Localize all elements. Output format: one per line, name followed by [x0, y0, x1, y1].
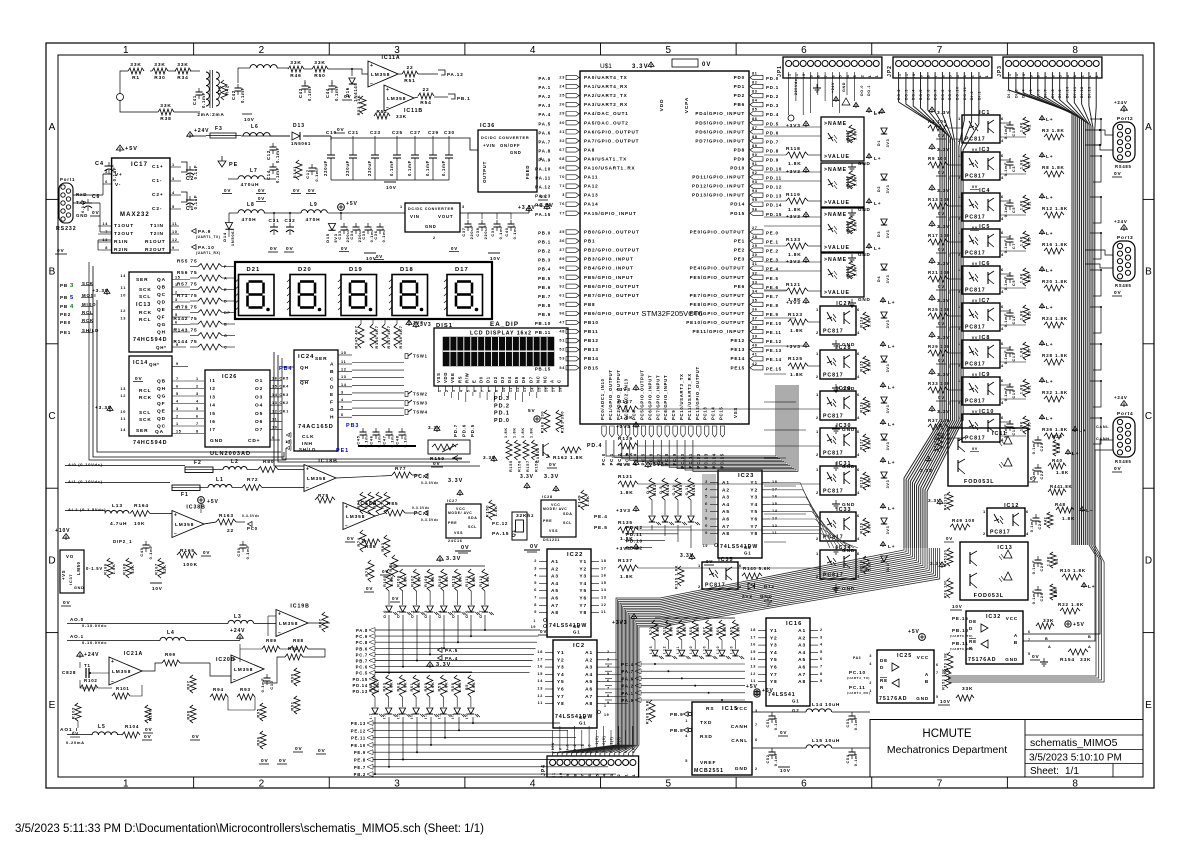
- svg-text:R149: R149: [577, 495, 582, 507]
- svg-text:10: 10: [120, 294, 126, 298]
- svg-text:1N5061: 1N5061: [291, 141, 311, 146]
- svg-text:8: 8: [927, 75, 931, 78]
- svg-text:PA12: PA12: [584, 184, 598, 189]
- svg-text:8: 8: [817, 75, 821, 78]
- svg-text:MODE/ AVC: MODE/ AVC: [543, 507, 567, 511]
- svg-text:PA4/DAC_OUT1: PA4/DAC_OUT1: [584, 111, 629, 116]
- svg-text:PD2: PD2: [734, 93, 745, 98]
- frame row tick: [46, 632, 58, 634]
- svg-text:R38: R38: [160, 116, 171, 122]
- svg-text:R164: R164: [134, 503, 149, 509]
- svg-text:IC7: IC7: [979, 298, 990, 304]
- svg-text:1.8K: 1.8K: [1020, 421, 1024, 431]
- svg-text:18: 18: [601, 559, 607, 563]
- svg-text:4: 4: [857, 415, 860, 420]
- svg-text:0.1mF: 0.1mF: [381, 228, 386, 243]
- svg-text:0V: 0V: [192, 734, 200, 740]
- svg-text:PE11/GPIO_INPUT: PE11/GPIO_INPUT: [692, 329, 745, 334]
- resistor R60 5.6K: [427, 675, 433, 697]
- svg-text:C41: C41: [192, 95, 197, 105]
- svg-text:O.4: O.4: [438, 610, 442, 618]
- resistor R64 5.6K: [372, 675, 378, 697]
- svg-text:DO.10: DO.10: [956, 86, 960, 100]
- label L+ IC8: [1041, 343, 1043, 347]
- svg-text:L+: L+: [888, 506, 895, 512]
- svg-text:1.8K: 1.8K: [1047, 556, 1051, 566]
- svg-text:(UART1_TX): (UART1_TX): [196, 235, 220, 239]
- svg-text:17: 17: [772, 487, 778, 491]
- svg-text:51: 51: [559, 339, 565, 343]
- power +5V ic15: [754, 691, 760, 697]
- svg-text:R66: R66: [716, 627, 720, 636]
- led I.0: [468, 708, 474, 714]
- svg-text:53: 53: [559, 357, 565, 361]
- svg-text:Y7: Y7: [770, 672, 778, 678]
- svg-text:6: 6: [1001, 153, 1004, 158]
- svg-text:3/5/2023 5:11:33 PM D:\Docume: 3/5/2023 5:11:33 PM D:\Documentation\Mic…: [15, 823, 484, 835]
- ic IC22 74LS541DW: [547, 549, 591, 637]
- svg-text:29: 29: [559, 112, 565, 116]
- svg-text:220uF: 220uF: [483, 225, 488, 240]
- led O.0: [386, 606, 392, 612]
- svg-text:2: 2: [698, 584, 701, 589]
- svg-text:5.6K: 5.6K: [868, 402, 872, 412]
- svg-text:0V: 0V: [1032, 654, 1040, 660]
- ic IC28 DS1231: [541, 500, 576, 537]
- svg-text:4: 4: [857, 330, 860, 335]
- resistor R63 5.6K: [386, 675, 392, 697]
- svg-text:15: 15: [601, 581, 607, 585]
- svg-text:10V: 10V: [490, 256, 501, 261]
- svg-text:PB: PB: [60, 304, 68, 309]
- svg-text:6: 6: [857, 351, 860, 356]
- svg-text:4: 4: [857, 374, 860, 379]
- svg-text:R48: R48: [1055, 502, 1066, 507]
- svg-text:G1: G1: [573, 630, 580, 635]
- svg-text:A5: A5: [798, 657, 806, 663]
- svg-text:PA.10: PA.10: [198, 245, 215, 250]
- optocoupler IC8 PC817: [962, 340, 1000, 368]
- svg-text:0V: 0V: [72, 731, 79, 736]
- svg-text:Y6: Y6: [750, 517, 758, 523]
- svg-text:5.6K: 5.6K: [854, 130, 858, 140]
- svg-text:1: 1: [875, 75, 879, 78]
- led O.5: [454, 606, 460, 612]
- led I.6: [386, 708, 392, 714]
- svg-text:>VALUE: >VALUE: [824, 200, 850, 206]
- svg-text:8: 8: [1072, 45, 1078, 56]
- svg-text:C10: C10: [269, 680, 274, 689]
- svg-text:10K: 10K: [134, 521, 145, 527]
- svg-text:0V: 0V: [279, 758, 287, 764]
- svg-text:A8: A8: [585, 701, 593, 707]
- zener 3V3 IC28: [881, 356, 887, 362]
- capacitor C35 0.1mF: [365, 226, 372, 228]
- svg-text:5: 5: [839, 75, 843, 78]
- svg-text:4: 4: [857, 536, 860, 541]
- svg-text:3: 3: [462, 205, 465, 209]
- power 3.3V IC9: [931, 371, 933, 375]
- svg-text:95: 95: [559, 302, 565, 306]
- svg-text:R32 1.8K: R32 1.8K: [1042, 390, 1068, 395]
- svg-text:67: 67: [559, 148, 565, 152]
- svg-text:C23: C23: [370, 130, 381, 135]
- svg-text:30: 30: [559, 121, 565, 125]
- svg-text:6: 6: [474, 390, 478, 393]
- wire ic20b feedback: [228, 697, 255, 710]
- frame column tick: [735, 43, 737, 55]
- svg-text:PC1/GPIO_OUTPUT: PC1/GPIO_OUTPUT: [608, 369, 613, 420]
- svg-text:PC.1: PC.1: [609, 453, 614, 465]
- optocoupler IC1 PC817: [962, 115, 1000, 143]
- svg-text:22: 22: [406, 65, 413, 71]
- svg-text:5.6K: 5.6K: [390, 682, 394, 693]
- svg-text:89: 89: [752, 144, 758, 148]
- svg-text:33K: 33K: [154, 62, 165, 68]
- svg-text:9: 9: [607, 701, 610, 705]
- svg-text:PC817: PC817: [965, 174, 986, 180]
- power 3.3V IC3: [931, 146, 933, 150]
- svg-text:22: 22: [227, 528, 234, 534]
- wires IC1 row: [1000, 122, 1010, 124]
- svg-text:DI.1: DI.1: [977, 91, 981, 100]
- svg-text:SER: SER: [136, 277, 148, 283]
- svg-text:PA2/UART2_TX: PA2/UART2_TX: [584, 93, 628, 98]
- svg-text:3V3: 3V3: [886, 364, 890, 373]
- zener D3 3V3: [881, 219, 887, 225]
- svg-text:Y3: Y3: [770, 643, 778, 649]
- svg-text:11: 11: [601, 610, 606, 614]
- resistor R1 33K: [128, 68, 144, 74]
- capacitor C17: [309, 167, 316, 169]
- svg-text:7: 7: [936, 671, 939, 675]
- svg-text:17: 17: [552, 387, 556, 392]
- svg-text:R12 1.8K: R12 1.8K: [1042, 206, 1068, 211]
- svg-text:R88: R88: [293, 638, 304, 643]
- svg-text:3V3: 3V3: [886, 442, 890, 451]
- svg-text:CANH: CANH: [1096, 437, 1110, 441]
- svg-text:5: 5: [70, 295, 74, 301]
- power 5V circle lcd: [534, 416, 540, 422]
- svg-text:E: E: [330, 392, 334, 398]
- capacitor C49 0.1mF: [143, 544, 150, 546]
- svg-text:0V: 0V: [376, 254, 383, 259]
- svg-text:C22: C22: [1040, 470, 1044, 479]
- wires row e: [67, 734, 92, 736]
- resistor R61 5.6K: [413, 675, 419, 697]
- capacitor C36 0.1mF: [377, 226, 384, 228]
- wires IC4 row: [1000, 200, 1010, 202]
- svg-text:9: 9: [495, 390, 499, 393]
- svg-text:C: C: [557, 379, 562, 383]
- svg-text:9: 9: [809, 75, 813, 78]
- capacitor C32: [286, 226, 294, 228]
- svg-text:PC8/GPIO_INPUT: PC8/GPIO_INPUT: [663, 375, 668, 420]
- svg-text:3.3V: 3.3V: [428, 425, 441, 430]
- svg-text:0.1mF: 0.1mF: [1032, 590, 1036, 604]
- optocoupler block >NAME 2: [821, 163, 864, 207]
- wires to ports: [1085, 130, 1113, 135]
- svg-text:PD.3: PD.3: [494, 396, 510, 402]
- svg-text:84: 84: [752, 99, 758, 103]
- svg-text:IC18B: IC18B: [318, 459, 337, 465]
- svg-text:1: 1: [1088, 75, 1092, 78]
- optocoupler IC13 FOD053L: [960, 542, 1028, 600]
- connector PB.1 jack: [448, 94, 455, 99]
- svg-text:R27: R27: [1028, 348, 1032, 357]
- svg-text:4: 4: [607, 665, 610, 669]
- resistor R19 1.8K vertical: [1023, 268, 1029, 286]
- svg-text:12: 12: [750, 672, 756, 676]
- svg-text:+: +: [174, 513, 178, 519]
- svg-text:R165: R165: [180, 548, 195, 554]
- svg-text:2: 2: [259, 779, 265, 790]
- frame column tick: [871, 43, 873, 55]
- svg-text:12: 12: [341, 368, 347, 372]
- svg-text:C5: C5: [1012, 207, 1016, 213]
- svg-text:Y5: Y5: [579, 588, 587, 594]
- svg-text:A3: A3: [585, 665, 593, 671]
- svg-text:LM358: LM358: [346, 514, 365, 520]
- svg-text:RxD: RxD: [76, 192, 87, 197]
- svg-text:3.3V: 3.3V: [436, 662, 451, 668]
- svg-text:R24 1.8K: R24 1.8K: [1042, 316, 1068, 321]
- svg-text:11: 11: [905, 73, 909, 78]
- svg-text:O4: O4: [255, 403, 263, 409]
- resistor R15 1.8K vertical: [1023, 231, 1029, 249]
- svg-text:6: 6: [857, 551, 860, 556]
- svg-text:PC817: PC817: [965, 215, 986, 221]
- led O.9: [662, 516, 668, 522]
- svg-text:D3: D3: [500, 376, 505, 383]
- resistor R154 33K: [1068, 649, 1088, 655]
- svg-text:C44: C44: [325, 88, 330, 98]
- svg-text:81: 81: [752, 72, 758, 76]
- svg-text:75176AD: 75176AD: [879, 696, 908, 702]
- svg-text:74HC594D: 74HC594D: [133, 337, 167, 343]
- svg-text:MAX232: MAX232: [120, 212, 150, 218]
- svg-text:R45100: R45100: [944, 550, 948, 567]
- svg-text:R126: R126: [860, 401, 864, 412]
- capacitor C38 220uF: [479, 223, 486, 225]
- svg-text:16 CK5: 16 CK5: [272, 377, 289, 381]
- svg-text:2: 2: [105, 170, 108, 174]
- svg-text:8: 8: [1072, 779, 1078, 790]
- svg-text:C27: C27: [410, 130, 421, 135]
- svg-text:+24V: +24V: [194, 128, 209, 134]
- svg-text:IC13: IC13: [136, 302, 151, 308]
- svg-text:L13: L13: [112, 503, 123, 509]
- svg-text:0V: 0V: [530, 544, 539, 550]
- svg-text:14: 14: [102, 222, 108, 226]
- svg-text:O2: O2: [255, 386, 263, 392]
- dc/dc converter 2: [405, 203, 460, 232]
- svg-text:R105: R105: [383, 575, 387, 587]
- svg-text:(UART3_RX): (UART3_RX): [950, 647, 973, 651]
- svg-text:TSW3: TSW3: [413, 401, 428, 406]
- resistor R148 4K7: [394, 324, 400, 348]
- svg-text:−: −: [306, 486, 310, 492]
- svg-text:R148 4K7: R148 4K7: [398, 325, 403, 348]
- svg-text:C43: C43: [298, 88, 303, 98]
- svg-text:PA.2: PA.2: [621, 684, 634, 689]
- optocoupler IC34 PC817: [820, 550, 856, 579]
- svg-text:FEED: FEED: [525, 165, 530, 179]
- svg-text:PD10: PD10: [730, 166, 745, 171]
- svg-text:VCC: VCC: [1006, 616, 1018, 621]
- label L+ IC3: [1041, 155, 1043, 159]
- frame row tick: [46, 487, 58, 489]
- svg-text:R76: R76: [380, 499, 385, 508]
- svg-text:0.1uF: 0.1uF: [193, 195, 198, 210]
- microcontroller U$1 STM32F205VCT6: [580, 71, 749, 424]
- svg-text:QF: QF: [157, 315, 165, 321]
- svg-text:0V: 0V: [347, 536, 355, 542]
- svg-text:PE.15: PE.15: [766, 366, 782, 371]
- svg-text:13: 13: [772, 517, 778, 521]
- svg-text:17: 17: [537, 657, 543, 661]
- svg-text:PD.6: PD.6: [462, 424, 467, 437]
- svg-text:PE13: PE13: [730, 347, 745, 352]
- power 3.3V ic11: [927, 458, 929, 462]
- svg-text:PB.6: PB.6: [356, 646, 368, 651]
- svg-text:0V: 0V: [540, 629, 547, 634]
- svg-text:15: 15: [175, 276, 181, 280]
- connector JP4 header: [547, 756, 639, 777]
- svg-text:O.5: O.5: [452, 610, 456, 618]
- svg-text:PA.6: PA.6: [538, 130, 551, 135]
- svg-text:0-20mA: 0-20mA: [66, 740, 85, 745]
- svg-text:F3: F3: [215, 126, 223, 132]
- wire ic38b output: [204, 522, 216, 524]
- svg-text:CLK: CLK: [302, 434, 314, 440]
- svg-text:+5V: +5V: [908, 629, 920, 635]
- svg-text:A3: A3: [722, 495, 730, 501]
- led O.3: [427, 606, 433, 612]
- svg-text:220uF: 220uF: [469, 225, 474, 240]
- svg-text:L4: L4: [167, 630, 175, 636]
- capacitor C40 0.1mF: [508, 223, 515, 225]
- svg-text:A: A: [1048, 645, 1051, 649]
- svg-text:PC817: PC817: [823, 489, 844, 495]
- svg-text:0.1mF: 0.1mF: [275, 167, 280, 183]
- svg-text:PB.6: PB.6: [538, 285, 551, 290]
- ic IC23 74LS541DW: [718, 470, 762, 558]
- frame row tick: [46, 198, 58, 200]
- svg-text:FOD053L: FOD053L: [974, 593, 1004, 599]
- svg-text:PA.7: PA.7: [621, 669, 634, 674]
- svg-text:+3.3V: +3.3V: [95, 405, 112, 411]
- svg-text:7: 7: [581, 774, 585, 777]
- svg-text:9: 9: [566, 774, 570, 777]
- svg-text:R54: R54: [420, 100, 431, 106]
- led I.4: [413, 708, 419, 714]
- wires IC6 row: [1000, 273, 1010, 275]
- fuse F1: [172, 485, 200, 491]
- svg-text:0V: 0V: [318, 748, 326, 754]
- svg-text:C37: C37: [461, 227, 466, 236]
- labels PE.15 PB.10 PB.11: [945, 614, 947, 616]
- svg-text:I.10: I.10: [729, 646, 733, 654]
- svg-text:0V: 0V: [203, 550, 210, 555]
- svg-text:PD.7: PD.7: [453, 424, 458, 437]
- resistor R106 5.6K: [400, 569, 406, 591]
- svg-text:PC.3: PC.3: [414, 511, 429, 517]
- svg-text:9: 9: [705, 524, 708, 528]
- svg-text:DE: DE: [880, 658, 888, 663]
- resistor R84: [392, 555, 398, 577]
- capacitor C13 0.1mF: [1007, 349, 1014, 351]
- svg-text:I.10: I.10: [703, 646, 707, 654]
- svg-text:18: 18: [750, 628, 756, 632]
- svg-text:T2IN: T2IN: [150, 231, 164, 237]
- svg-text:ON/OFF: ON/OFF: [500, 143, 520, 148]
- connector PA.12 jack: [438, 70, 445, 75]
- svg-text:PD.3: PD.3: [766, 103, 779, 108]
- svg-text:3: 3: [534, 566, 537, 570]
- svg-text:RCL: RCL: [139, 388, 151, 394]
- svg-text:0V: 0V: [295, 746, 303, 752]
- svg-text:PE3: PE3: [734, 257, 745, 262]
- capacitor C1 0.1uF: [181, 192, 187, 202]
- ic IC32 75176AD: [966, 611, 1023, 664]
- svg-text:>VALUE: >VALUE: [824, 245, 850, 251]
- svg-text:0V: 0V: [286, 246, 294, 252]
- zener 3V3 IC34: [881, 556, 887, 562]
- svg-text:A4: A4: [585, 672, 593, 678]
- svg-text:PD.11: PD.11: [766, 176, 782, 181]
- svg-text:68: 68: [559, 157, 565, 161]
- svg-text:1: 1: [1095, 75, 1099, 78]
- svg-text:PD.13: PD.13: [766, 194, 782, 199]
- svg-text:6: 6: [1001, 267, 1004, 272]
- wires below lcd pins: [444, 392, 446, 396]
- svg-text:PB15: PB15: [584, 365, 599, 370]
- svg-text:PC817: PC817: [823, 373, 844, 379]
- svg-text:1.8K: 1.8K: [1020, 200, 1024, 210]
- svg-text:PE.1: PE.1: [766, 240, 779, 245]
- optocoupler IC5 PC817: [962, 229, 1000, 257]
- svg-text:14: 14: [341, 383, 347, 387]
- svg-text:CANL: CANL: [731, 738, 748, 744]
- svg-text:D6: D6: [521, 376, 526, 383]
- svg-text:2: 2: [816, 415, 819, 420]
- svg-text:B: B: [330, 369, 334, 375]
- svg-text:6: 6: [857, 429, 860, 434]
- svg-text:C: C: [48, 411, 55, 422]
- svg-text:Y3: Y3: [579, 574, 587, 580]
- svg-text:6: 6: [739, 563, 742, 568]
- capacitor C33 220uF: [341, 226, 348, 228]
- svg-text:PE8/GPIO_OUTPUT: PE8/GPIO_OUTPUT: [690, 302, 745, 307]
- svg-text:IC5: IC5: [979, 224, 990, 230]
- svg-text:C49: C49: [139, 547, 144, 556]
- svg-text:1.8K: 1.8K: [521, 427, 525, 438]
- power +3.3V ic14: [109, 408, 111, 412]
- capacitor C47 0.1mF: [386, 431, 393, 433]
- svg-text:76: 76: [559, 202, 565, 206]
- svg-text:100K: 100K: [183, 562, 198, 568]
- svg-text:PC13: PC13: [703, 406, 708, 420]
- svg-text:C828: C828: [62, 670, 76, 675]
- svg-text:0V: 0V: [946, 536, 953, 541]
- svg-text:PB7/GPIO_OUTPUT: PB7/GPIO_OUTPUT: [584, 293, 640, 298]
- svg-text:PD8: PD8: [734, 147, 745, 152]
- svg-text:VSS: VSS: [436, 372, 441, 383]
- svg-text:2: 2: [983, 531, 986, 536]
- capacitor C46 0.1mF: [373, 431, 380, 433]
- svg-text:R119: R119: [786, 192, 801, 198]
